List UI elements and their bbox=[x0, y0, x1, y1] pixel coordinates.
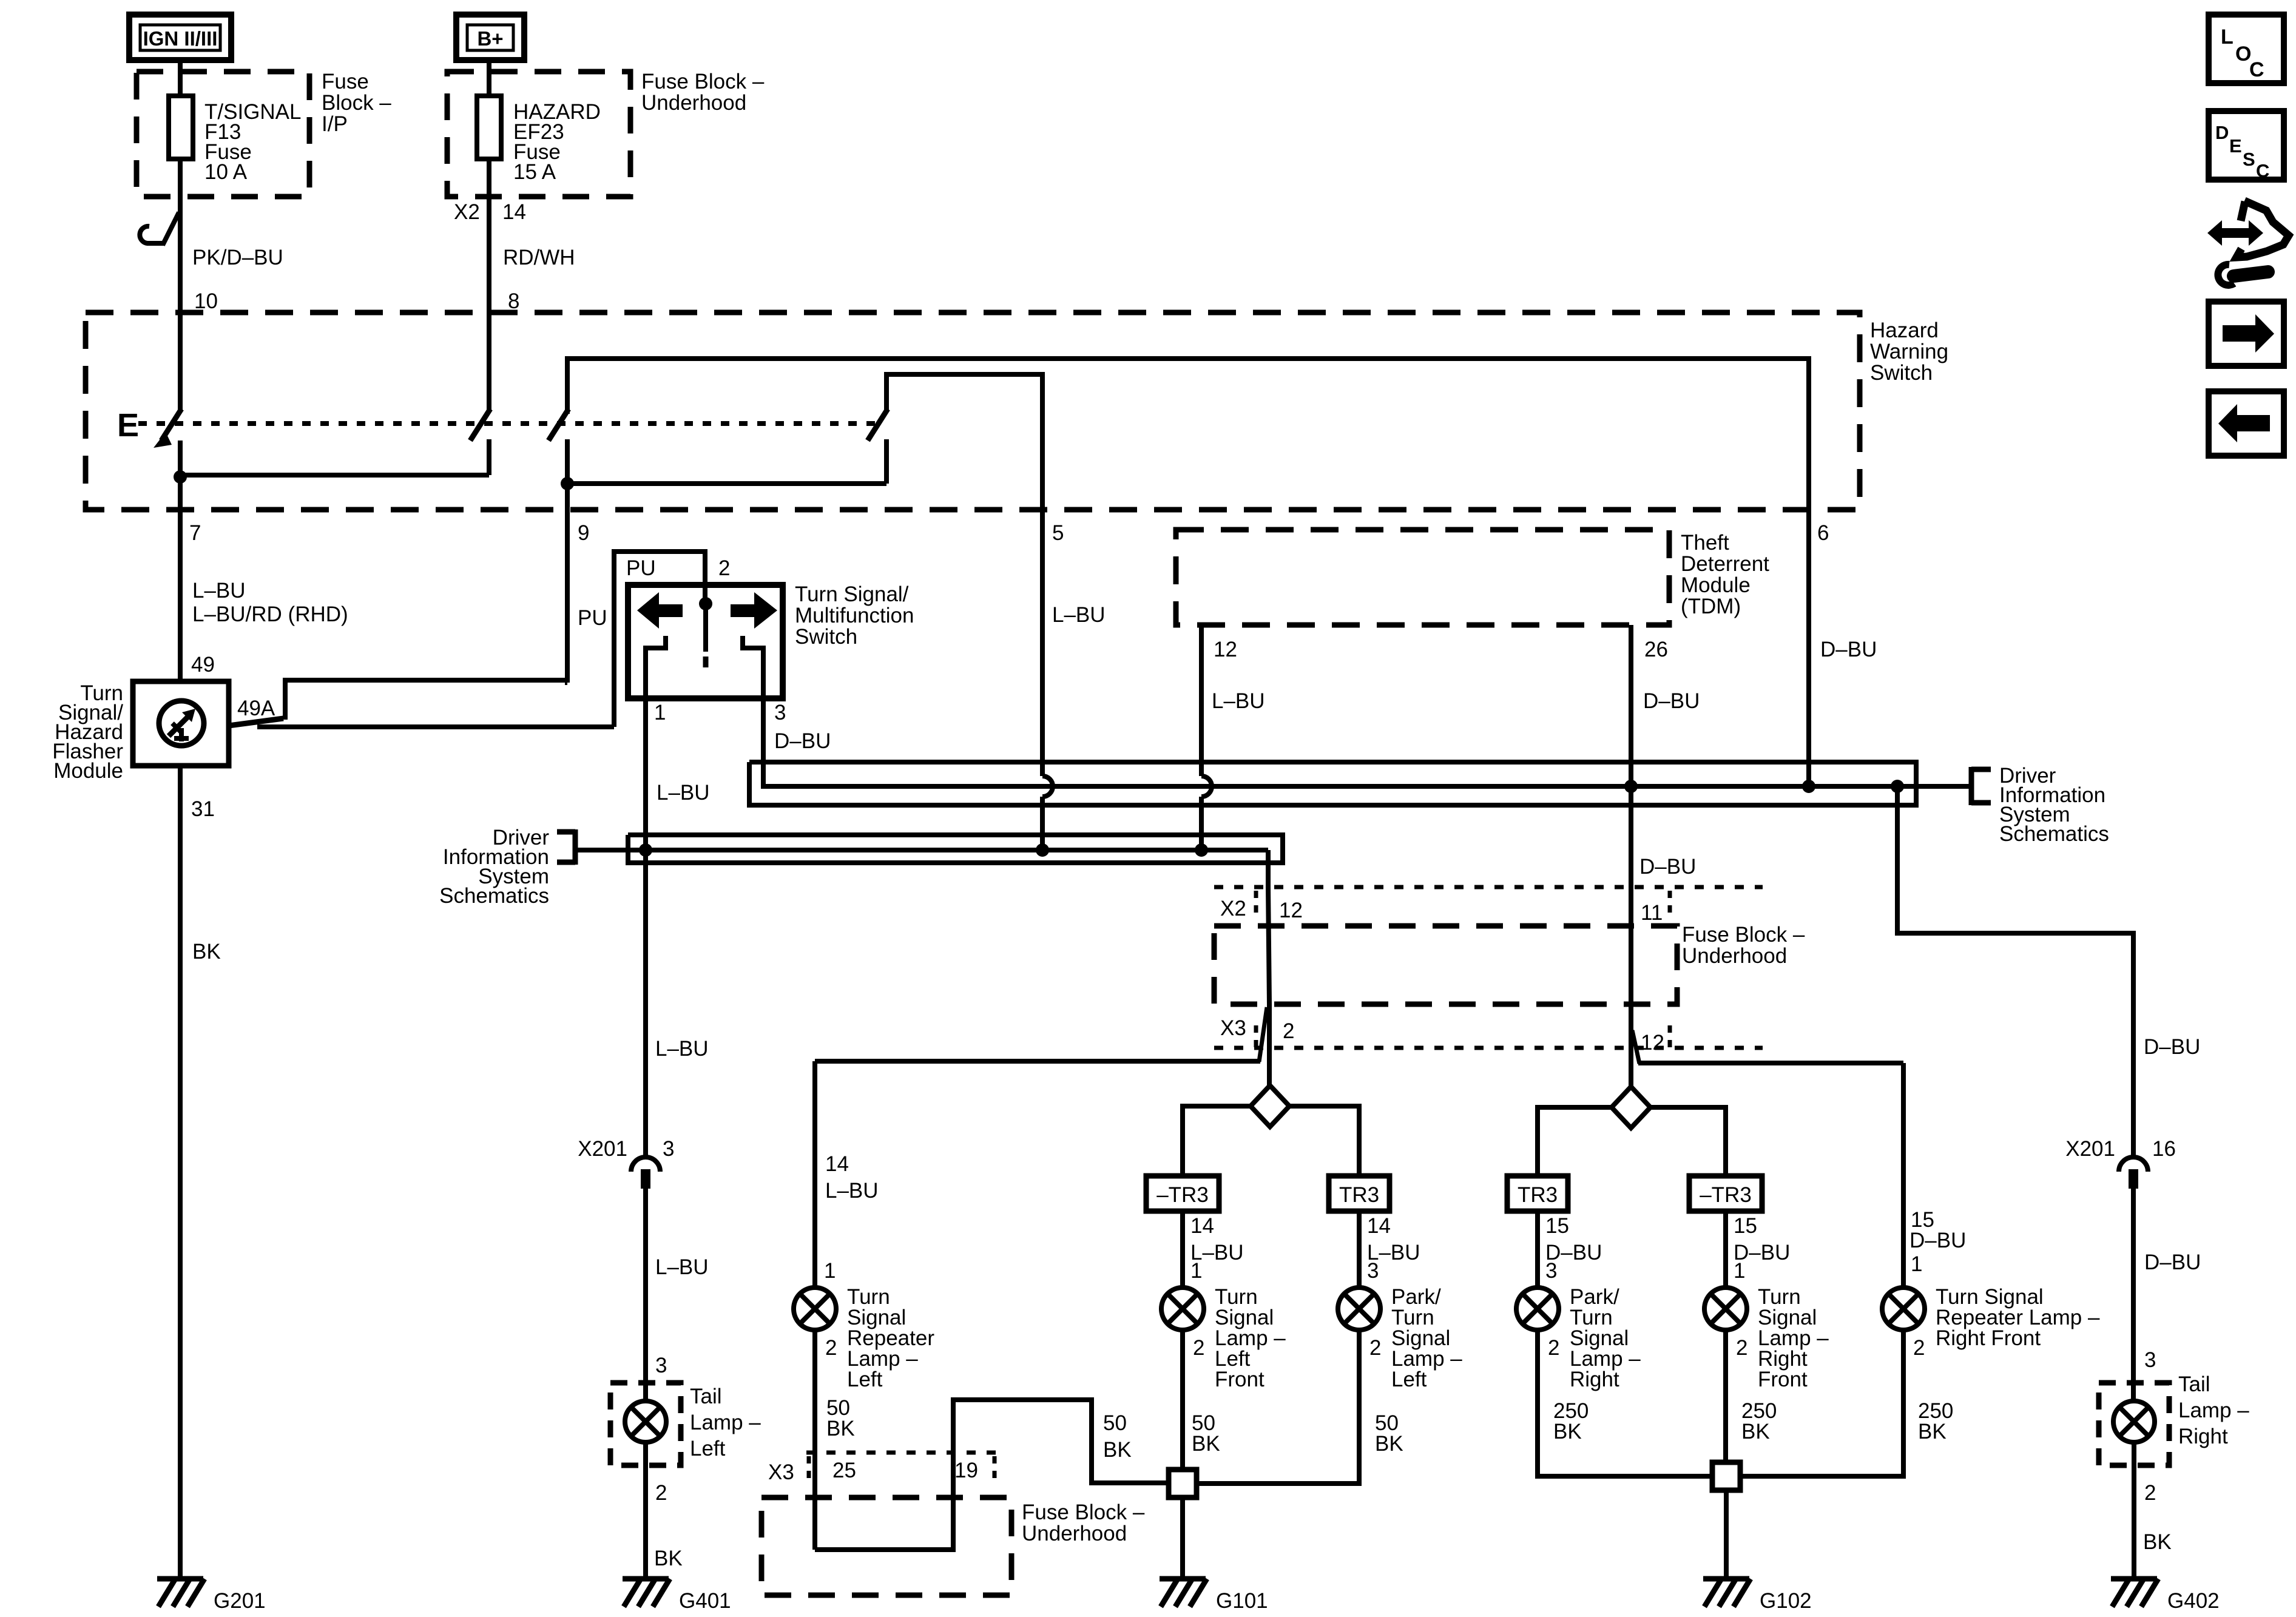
wire C-D link bbox=[567, 481, 886, 486]
svg-text:–TR3: –TR3 bbox=[1700, 1183, 1752, 1207]
svg-text:1: 1 bbox=[824, 1259, 836, 1283]
wire pin9 PU down bbox=[565, 511, 570, 683]
svg-text:Module: Module bbox=[1681, 573, 1751, 597]
svg-text:Switch: Switch bbox=[1870, 361, 1933, 385]
svg-text:Theft: Theft bbox=[1681, 531, 1729, 555]
power feed tag B+ bbox=[456, 15, 524, 60]
svg-text:Switch: Switch bbox=[795, 625, 857, 649]
svg-text:Fuse Block –: Fuse Block – bbox=[641, 70, 765, 93]
wire hazard pin7 out bbox=[178, 477, 183, 511]
svg-text:Tail: Tail bbox=[2178, 1372, 2210, 1396]
svg-text:G102: G102 bbox=[1760, 1589, 1812, 1613]
wire -TR3 left down bbox=[1180, 1211, 1185, 1288]
switch blade A bbox=[178, 314, 183, 410]
fuse block underhood bottom dashed box bbox=[761, 1497, 1011, 1595]
svg-text:L–BU: L–BU bbox=[1212, 689, 1265, 713]
svg-text:BK: BK bbox=[1103, 1438, 1132, 1462]
svg-text:S: S bbox=[2243, 149, 2255, 170]
svg-text:TR3: TR3 bbox=[1339, 1183, 1379, 1207]
svg-text:Right Front: Right Front bbox=[1936, 1326, 2041, 1350]
wire F13 down to hazard switch bbox=[178, 159, 183, 314]
svg-text:14: 14 bbox=[1367, 1214, 1391, 1238]
svg-text:X201: X201 bbox=[2065, 1137, 2115, 1161]
turn signal lamp right front bulb bbox=[1704, 1288, 1747, 1330]
wire 49A junction to switch pin 2 bbox=[614, 552, 705, 727]
switch moving contact bbox=[703, 604, 708, 652]
svg-text:15 A: 15 A bbox=[513, 160, 556, 184]
wire hazard pin6 down bbox=[1806, 511, 1811, 786]
svg-text:D–BU: D–BU bbox=[1909, 1229, 1966, 1252]
flasher symbol bbox=[159, 701, 204, 746]
park turn signal lamp left bulb bbox=[1338, 1288, 1380, 1330]
svg-text:2: 2 bbox=[1736, 1336, 1747, 1360]
theft deterrent module dashed box bbox=[1176, 530, 1669, 625]
node switch common bbox=[699, 597, 712, 610]
wire L-BU to X2-12 bbox=[1266, 850, 1271, 887]
svg-text:BK: BK bbox=[1918, 1420, 1947, 1443]
svg-text:14: 14 bbox=[825, 1152, 849, 1176]
svg-text:G101: G101 bbox=[1216, 1589, 1268, 1613]
svg-text:8: 8 bbox=[508, 289, 519, 313]
icon LOC bbox=[2209, 15, 2284, 83]
node pin12 bus junction bbox=[1195, 843, 1208, 857]
mechanical linkage dotted line bbox=[138, 421, 877, 426]
tail lamp right dashed box bbox=[2099, 1383, 2169, 1465]
svg-text:Turn Signal/: Turn Signal/ bbox=[795, 582, 909, 606]
svg-text:L: L bbox=[2221, 25, 2234, 49]
svg-text:Deterrent: Deterrent bbox=[1681, 552, 1769, 576]
svg-text:L–BU: L–BU bbox=[655, 1037, 709, 1061]
svg-text:X201: X201 bbox=[578, 1137, 627, 1161]
svg-text:3: 3 bbox=[663, 1137, 674, 1161]
node diamond splice right bbox=[1612, 1087, 1650, 1128]
svg-text:2: 2 bbox=[825, 1336, 837, 1360]
svg-text:BK: BK bbox=[826, 1417, 855, 1440]
svg-text:–TR3: –TR3 bbox=[1156, 1183, 1209, 1207]
svg-text:Tail: Tail bbox=[690, 1385, 722, 1408]
node pin6 bus junction bbox=[1802, 780, 1815, 793]
tick X3 left bbox=[1254, 1025, 1258, 1052]
right bracket driver information bbox=[1969, 767, 1974, 805]
svg-text:BK: BK bbox=[192, 940, 221, 964]
wire park left to splice square bbox=[1197, 1329, 1359, 1484]
svg-text:19: 19 bbox=[954, 1459, 978, 1482]
switch blade D bbox=[868, 409, 888, 441]
wire EF23 down to hazard switch bbox=[487, 159, 491, 314]
svg-text:X2: X2 bbox=[454, 200, 480, 224]
node pin26 bus junction bbox=[1624, 780, 1638, 793]
wire hazard 7 to flasher 49 bbox=[178, 511, 183, 684]
node pin5 bus junction bbox=[1036, 843, 1049, 857]
wire X3-25 to X3-19 jog bbox=[815, 1400, 1166, 1550]
wire IGN to fuse F13 bbox=[178, 60, 183, 97]
wire tail left to ground bbox=[643, 1442, 648, 1579]
svg-text:D–BU: D–BU bbox=[2144, 1251, 2201, 1274]
wire B+ to fuse EF23 bbox=[487, 60, 491, 97]
svg-text:PK/D–BU: PK/D–BU bbox=[192, 246, 283, 269]
wire X3-2 second crimp to left bbox=[1259, 1007, 1267, 1062]
connector clip on wire 10 bbox=[140, 212, 179, 245]
svg-text:14: 14 bbox=[1190, 1214, 1214, 1238]
wire D-BU from switch pin3 into upper bus bbox=[763, 698, 1971, 786]
splice square right bbox=[1712, 1462, 1740, 1490]
wire hazard pin9 out bbox=[565, 484, 570, 511]
svg-text:2: 2 bbox=[1369, 1336, 1381, 1360]
svg-text:G201: G201 bbox=[214, 1589, 266, 1613]
wire hazard pin5 down bbox=[1040, 511, 1045, 776]
tail lamp right bulb bbox=[2113, 1401, 2155, 1442]
wire diamond left branch bbox=[1183, 1106, 1251, 1176]
svg-text:X3: X3 bbox=[768, 1460, 794, 1484]
hazard internal top wire to pin 6 bbox=[567, 359, 1809, 511]
wire park right to splice square bbox=[1538, 1329, 1712, 1476]
wire blade A to junction bbox=[178, 441, 183, 477]
svg-text:C: C bbox=[2249, 58, 2264, 81]
power feed tag IGN II/III bbox=[129, 15, 231, 60]
switch blade B bbox=[487, 314, 491, 411]
tail lamp left dashed box bbox=[610, 1383, 681, 1465]
svg-text:D–BU: D–BU bbox=[1639, 855, 1696, 879]
wire TR3 right down bbox=[1535, 1211, 1540, 1288]
svg-text:1: 1 bbox=[1911, 1252, 1922, 1276]
fuse block underhood middle dashed box bbox=[1214, 926, 1677, 1004]
wire switch pin1 down bbox=[643, 698, 648, 850]
lower bus outline bbox=[628, 835, 1283, 863]
turn signal lamp left front bulb bbox=[1161, 1288, 1204, 1330]
turn signal multifunction switch box bbox=[628, 585, 783, 698]
svg-text:B+: B+ bbox=[477, 27, 503, 50]
node pin1 bus junction bbox=[639, 843, 652, 857]
wire X201-3 to tail lamp left bbox=[643, 1189, 648, 1401]
wire ts right front to splice square bbox=[1723, 1329, 1728, 1462]
ground G402 bbox=[2111, 1576, 2157, 1582]
wire X201-16 to tail lamp right bbox=[2131, 1189, 2136, 1401]
svg-text:BK: BK bbox=[1553, 1420, 1582, 1443]
turn signal hazard flasher module U1 bbox=[133, 681, 229, 766]
tick X3 right bbox=[1668, 1025, 1672, 1052]
svg-text:X2: X2 bbox=[1220, 897, 1246, 920]
switch pin1 contact bbox=[646, 636, 666, 698]
svg-text:PU: PU bbox=[626, 556, 656, 580]
svg-text:2: 2 bbox=[718, 556, 730, 580]
ground G102 bbox=[1703, 1576, 1749, 1582]
fuse F13 bbox=[169, 96, 193, 159]
svg-text:IGN II/III: IGN II/III bbox=[143, 27, 218, 50]
fuse block underhood dashed box bbox=[447, 72, 630, 197]
svg-text:Front: Front bbox=[1758, 1368, 1808, 1391]
svg-text:TR3: TR3 bbox=[1518, 1183, 1558, 1207]
svg-text:12: 12 bbox=[1641, 1031, 1664, 1055]
turn signal repeater lamp right front bulb bbox=[1882, 1288, 1925, 1330]
svg-text:Lamp –: Lamp – bbox=[2178, 1399, 2249, 1422]
switch blade C bbox=[549, 409, 569, 441]
tick X2 left bbox=[1254, 891, 1258, 917]
svg-text:31: 31 bbox=[191, 797, 215, 821]
svg-text:2: 2 bbox=[1283, 1019, 1294, 1043]
svg-text:15: 15 bbox=[1545, 1214, 1569, 1238]
svg-text:5: 5 bbox=[1052, 521, 1064, 545]
wire repeater left down bbox=[812, 1061, 817, 1288]
svg-text:26: 26 bbox=[1644, 638, 1668, 661]
wire branch to tail lamp right bbox=[1897, 786, 2133, 1157]
svg-text:7: 7 bbox=[189, 521, 201, 545]
svg-text:D–BU: D–BU bbox=[774, 729, 831, 753]
svg-text:Left: Left bbox=[847, 1368, 883, 1391]
svg-text:Fuse Block –: Fuse Block – bbox=[1682, 923, 1805, 947]
splice -TR3 right bbox=[1689, 1176, 1762, 1211]
wire repeater right to splice square bbox=[1740, 1329, 1903, 1476]
connector X3 dotted line bottom bbox=[806, 1451, 996, 1455]
svg-text:12: 12 bbox=[1214, 638, 1237, 661]
svg-text:1: 1 bbox=[1734, 1259, 1745, 1283]
svg-text:9: 9 bbox=[578, 521, 589, 545]
svg-text:1: 1 bbox=[1190, 1259, 1202, 1283]
svg-text:C: C bbox=[2256, 160, 2269, 181]
tail lamp left bulb bbox=[625, 1401, 666, 1442]
svg-text:3: 3 bbox=[774, 701, 786, 724]
svg-text:11: 11 bbox=[1641, 901, 1663, 925]
svg-text:Lamp –: Lamp – bbox=[690, 1411, 761, 1434]
svg-text:1: 1 bbox=[654, 701, 666, 724]
svg-text:10 A: 10 A bbox=[204, 160, 248, 184]
left bracket driver information bbox=[573, 829, 578, 865]
svg-text:Left: Left bbox=[690, 1437, 726, 1460]
svg-text:3: 3 bbox=[655, 1354, 667, 1377]
connector X2 dotted line middle bbox=[1214, 885, 1763, 890]
hazard warning switch dashed box bbox=[86, 312, 1860, 510]
svg-text:L–BU: L–BU bbox=[825, 1179, 879, 1203]
svg-text:BK: BK bbox=[2143, 1530, 2172, 1554]
svg-text:Fuse: Fuse bbox=[322, 70, 369, 93]
svg-text:Schematics: Schematics bbox=[439, 884, 549, 908]
node diamond splice left bbox=[1251, 1085, 1289, 1127]
wire repeater left to X3-25 bbox=[812, 1329, 817, 1550]
svg-text:Underhood: Underhood bbox=[1682, 944, 1787, 968]
svg-text:RD/WH: RD/WH bbox=[503, 246, 575, 269]
node tail right branch bbox=[1891, 780, 1904, 793]
svg-text:Block –: Block – bbox=[322, 91, 391, 115]
wire repeater right down bbox=[1901, 1063, 1906, 1288]
svg-text:L–BU: L–BU bbox=[657, 781, 710, 805]
wire diamond right branch right side bbox=[1650, 1107, 1726, 1176]
svg-text:Front: Front bbox=[1215, 1368, 1264, 1391]
svg-text:49A: 49A bbox=[237, 697, 275, 720]
svg-text:D–BU: D–BU bbox=[2144, 1035, 2200, 1059]
svg-text:Module: Module bbox=[53, 759, 123, 783]
tick X3 bottom right bbox=[993, 1456, 997, 1483]
svg-text:G402: G402 bbox=[2167, 1589, 2220, 1613]
svg-text:E: E bbox=[2229, 135, 2242, 157]
svg-text:D: D bbox=[2215, 122, 2229, 143]
svg-text:3: 3 bbox=[1367, 1259, 1379, 1283]
wire ts left front to splice square bbox=[1180, 1329, 1185, 1471]
svg-text:Right: Right bbox=[2178, 1425, 2228, 1448]
icon arrow left box bbox=[2209, 391, 2284, 456]
svg-text:3: 3 bbox=[1545, 1259, 1557, 1283]
svg-text:BK: BK bbox=[1375, 1432, 1403, 1456]
svg-text:Right: Right bbox=[1570, 1368, 1619, 1391]
svg-text:E: E bbox=[117, 407, 139, 444]
svg-text:BK: BK bbox=[1192, 1432, 1220, 1456]
svg-text:Underhood: Underhood bbox=[641, 91, 746, 115]
svg-text:50: 50 bbox=[1103, 1411, 1127, 1435]
svg-text:L–BU/RD (RHD): L–BU/RD (RHD) bbox=[192, 603, 348, 626]
svg-text:G401: G401 bbox=[679, 1589, 731, 1613]
svg-text:BK: BK bbox=[654, 1547, 683, 1570]
svg-text:2: 2 bbox=[655, 1481, 667, 1505]
svg-text:L–BU: L–BU bbox=[192, 579, 246, 603]
svg-text:Underhood: Underhood bbox=[1022, 1522, 1127, 1545]
wire splice square right to ground bbox=[1724, 1490, 1729, 1579]
svg-text:BK: BK bbox=[1741, 1420, 1770, 1443]
svg-text:Multifunction: Multifunction bbox=[795, 604, 914, 627]
splice square left bbox=[1169, 1470, 1197, 1497]
tick X3 bottom left bbox=[807, 1456, 811, 1483]
svg-text:6: 6 bbox=[1817, 521, 1829, 545]
splice TR3 left bbox=[1329, 1176, 1389, 1211]
switch right arrow bbox=[731, 592, 777, 629]
svg-text:10: 10 bbox=[194, 289, 218, 313]
wire blade C stub bbox=[565, 439, 570, 484]
switch left arrow bbox=[637, 592, 683, 629]
wire X3-12 second crimp to right bbox=[1632, 1030, 1639, 1064]
wire X3-12 down to diamond bbox=[1629, 1004, 1633, 1087]
connector X3 dotted line middle bbox=[1214, 1046, 1763, 1050]
wire TDM pin12 down bbox=[1199, 625, 1204, 776]
svg-text:2: 2 bbox=[1548, 1336, 1559, 1360]
svg-text:D–BU: D–BU bbox=[1820, 638, 1877, 661]
wire diamond left branch right side bbox=[1538, 1107, 1612, 1176]
node junction C bbox=[561, 477, 574, 490]
wire flasher 49A output bbox=[229, 718, 283, 726]
svg-text:12: 12 bbox=[1279, 899, 1303, 922]
ground G201 bbox=[157, 1576, 203, 1582]
connector X201 pin16 bbox=[2119, 1157, 2148, 1172]
wire pin26 down to X2-11 bbox=[1629, 786, 1633, 1004]
icon wrench arrow bbox=[2207, 220, 2263, 246]
ground G101 bbox=[1160, 1576, 1206, 1582]
svg-text:25: 25 bbox=[832, 1459, 856, 1482]
wire diamond right branch bbox=[1289, 1106, 1359, 1176]
svg-text:2: 2 bbox=[2144, 1481, 2156, 1505]
svg-text:14: 14 bbox=[502, 200, 526, 224]
wire -TR3 right down bbox=[1723, 1211, 1728, 1288]
svg-text:D–BU: D–BU bbox=[1643, 689, 1700, 713]
park turn signal lamp right bulb bbox=[1516, 1288, 1559, 1330]
svg-text:16: 16 bbox=[2152, 1137, 2176, 1161]
svg-text:I/P: I/P bbox=[322, 112, 348, 136]
svg-text:2: 2 bbox=[1193, 1336, 1204, 1360]
svg-text:L–BU: L–BU bbox=[1052, 603, 1106, 627]
svg-text:X3: X3 bbox=[1220, 1016, 1246, 1040]
svg-text:Fuse Block –: Fuse Block – bbox=[1022, 1501, 1145, 1524]
svg-text:3: 3 bbox=[2144, 1348, 2156, 1372]
wire splice square left to ground bbox=[1180, 1497, 1185, 1579]
switch pin3 contact bbox=[743, 636, 763, 698]
wire pin1 bus to X201-3 bbox=[643, 850, 648, 1157]
splice TR3 right bbox=[1507, 1176, 1568, 1211]
wire L-BU lower bus bbox=[575, 848, 1268, 852]
connector X201 pin3 bbox=[631, 1157, 660, 1172]
svg-text:15: 15 bbox=[1734, 1214, 1757, 1238]
svg-text:Hazard: Hazard bbox=[1870, 319, 1939, 342]
svg-text:Warning: Warning bbox=[1870, 340, 1948, 363]
wire A-B link bbox=[180, 473, 489, 478]
tick X2 right bbox=[1668, 891, 1672, 917]
icon DESC bbox=[2209, 111, 2284, 180]
wire flasher 31 to ground bbox=[178, 766, 183, 1579]
ground G401 bbox=[623, 1576, 669, 1582]
node junction A bbox=[174, 470, 187, 484]
svg-text:Schematics: Schematics bbox=[1999, 822, 2109, 846]
wire TDM pin26 down bbox=[1629, 625, 1633, 786]
svg-text:2: 2 bbox=[1913, 1336, 1925, 1360]
wire X3-2 down to diamond bbox=[1267, 1004, 1272, 1085]
fuse block I/P dashed box bbox=[137, 72, 309, 197]
svg-text:L–BU: L–BU bbox=[655, 1255, 709, 1279]
upper bus outline bbox=[749, 762, 1916, 805]
splice -TR3 left bbox=[1146, 1176, 1219, 1211]
svg-text:(TDM): (TDM) bbox=[1681, 595, 1741, 618]
switch pin2 wire into box bbox=[703, 585, 707, 603]
svg-text:PU: PU bbox=[578, 606, 607, 630]
svg-text:49: 49 bbox=[191, 653, 215, 677]
wire tail right to ground bbox=[2132, 1442, 2136, 1579]
svg-text:Left: Left bbox=[1391, 1368, 1427, 1391]
wire TR3 left down bbox=[1357, 1211, 1362, 1288]
fuse EF23 bbox=[477, 96, 501, 159]
turn signal repeater lamp left bulb bbox=[794, 1288, 836, 1330]
icon arrow right box bbox=[2209, 302, 2284, 366]
